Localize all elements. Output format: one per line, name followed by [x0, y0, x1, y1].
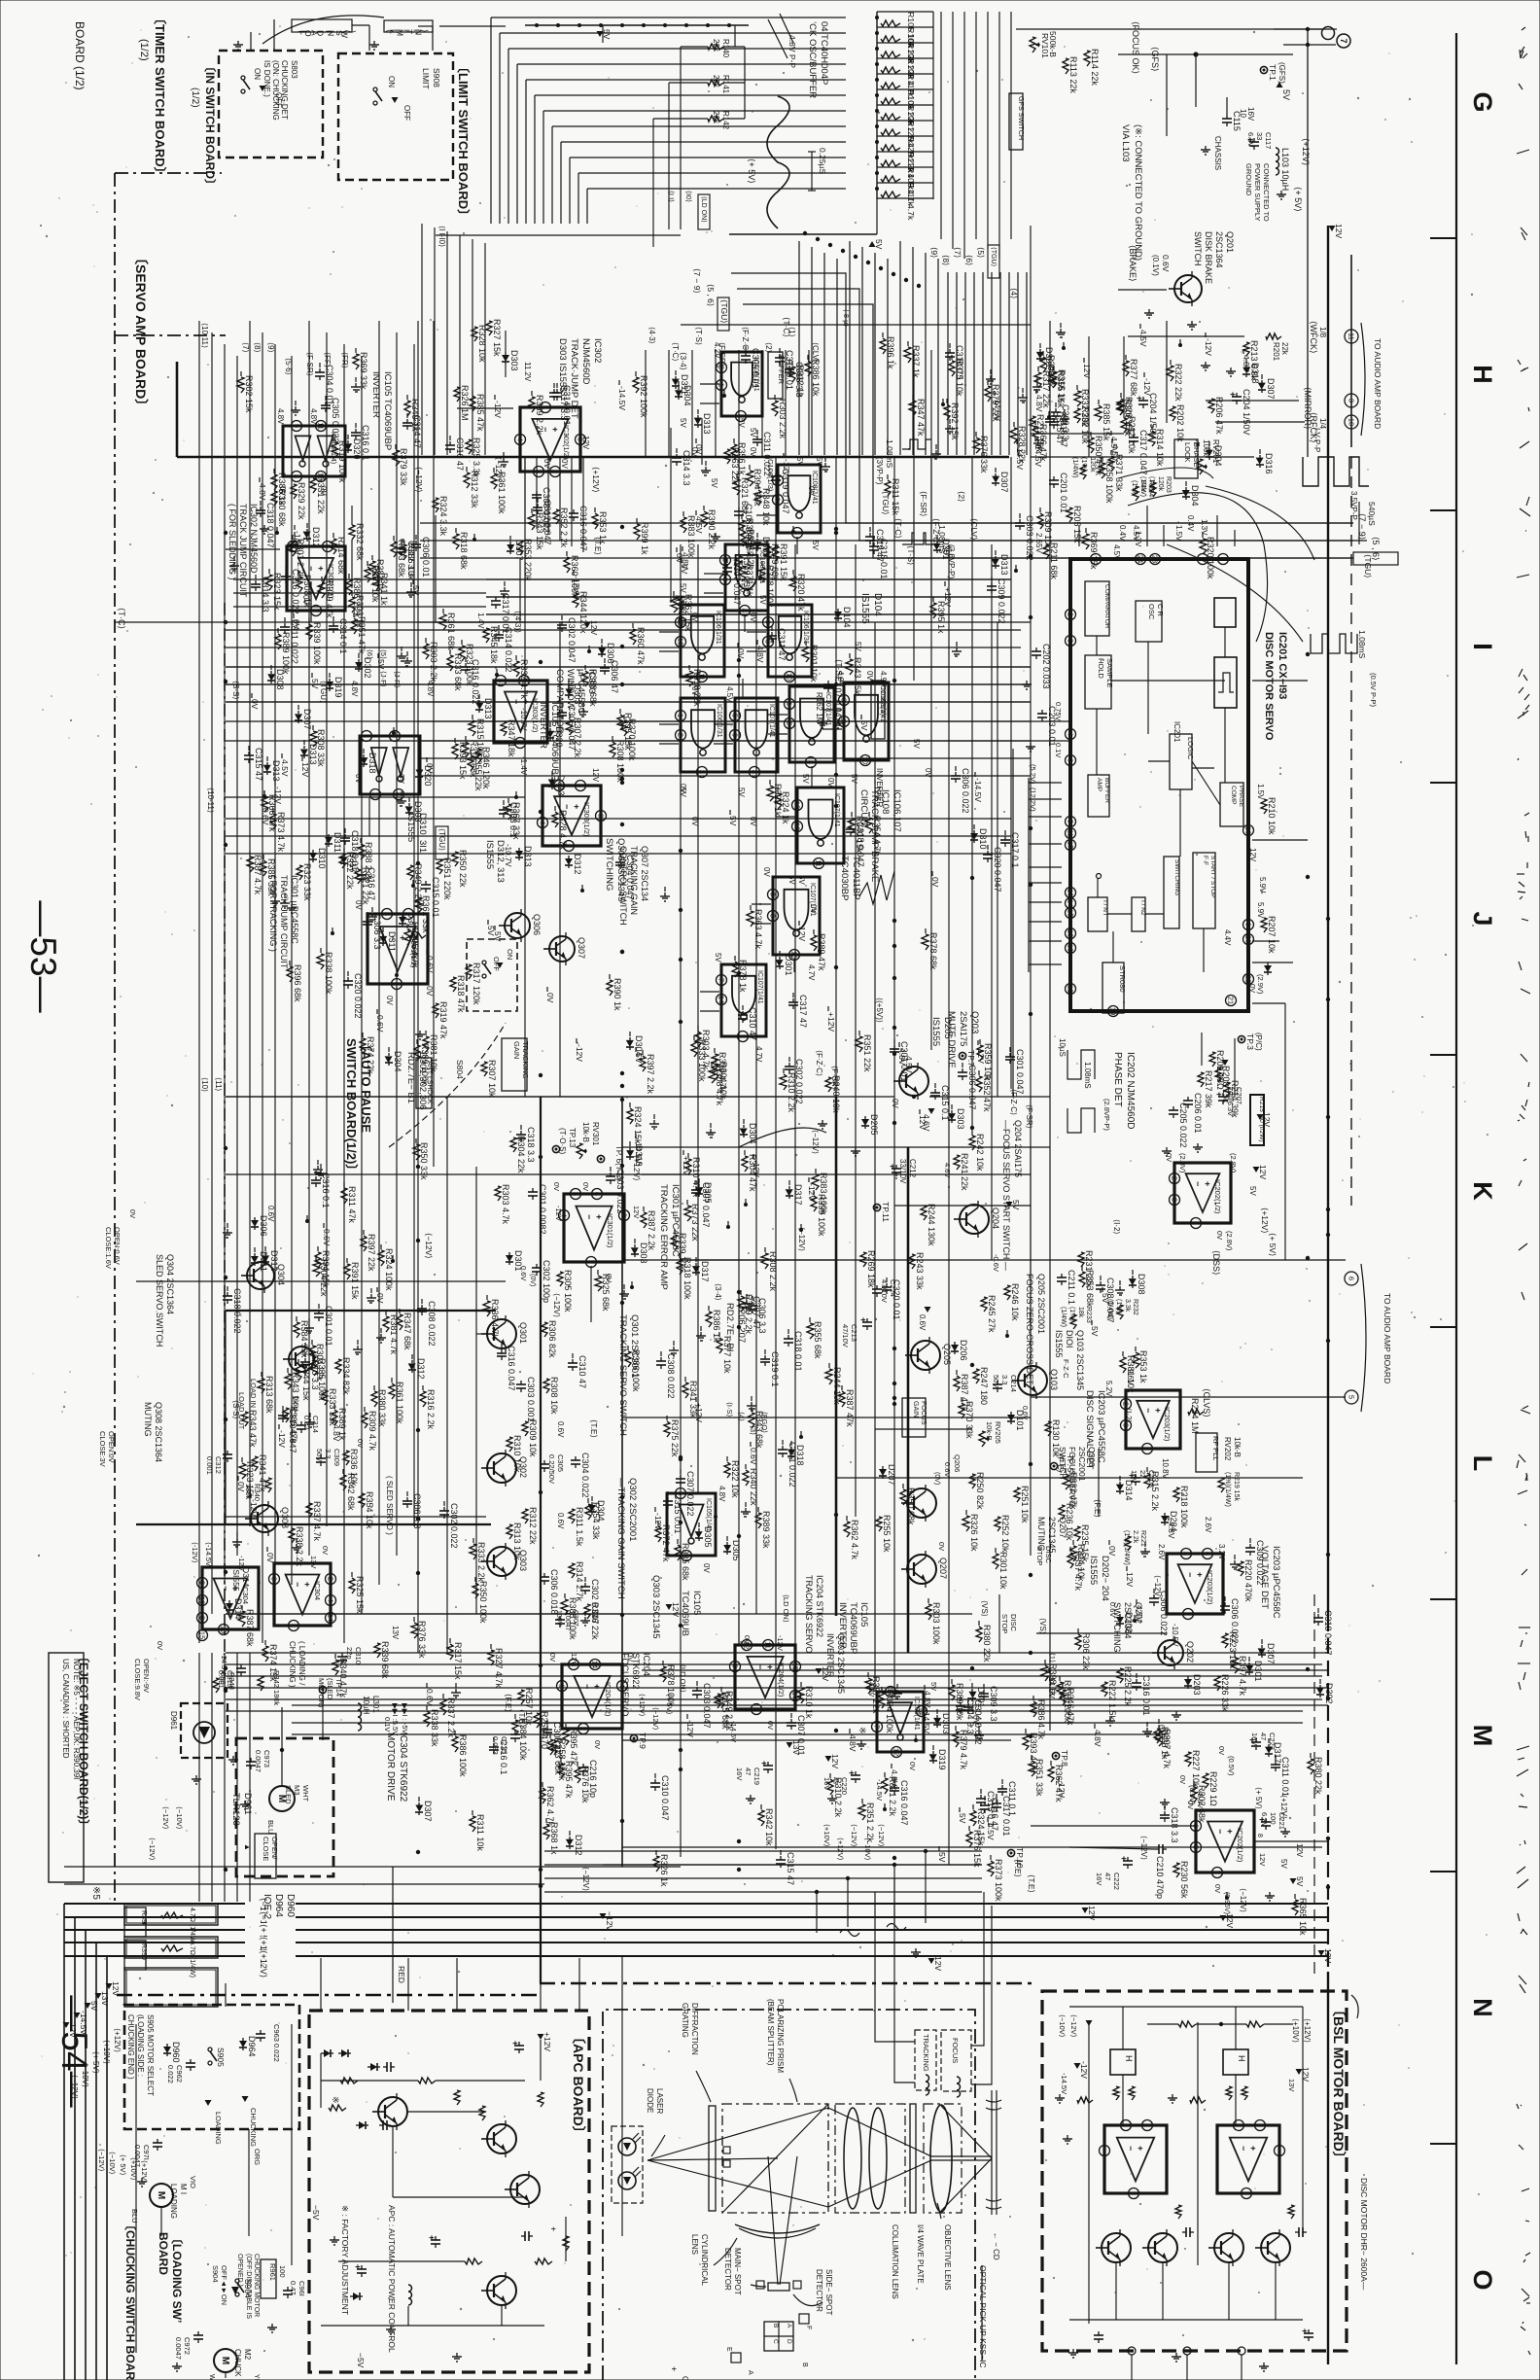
svg-text:+: + [594, 1214, 604, 1219]
svg-text:5V: 5V [797, 875, 806, 885]
svg-text:F·Z·C: F·Z·C [1062, 1359, 1070, 1379]
svg-text:C972: C972 [183, 2337, 192, 2355]
svg-text:5V: 5V [929, 1682, 938, 1691]
tgu rails [226, 818, 1011, 820]
resistor R257 [518, 1690, 524, 1704]
svg-text:12V: 12V [797, 927, 807, 941]
svg-text:R226 33k: R226 33k [1220, 1674, 1230, 1712]
svg-text:C207: C207 [1235, 1087, 1243, 1104]
capacitor C972 [197, 2331, 199, 2335]
coil loops [840, 1924, 906, 1937]
svg-text:⟨TGU⟩: ⟨TGU⟩ [1363, 554, 1373, 578]
svg-text:M3: M3 [293, 1785, 301, 1795]
quarter wave plate [910, 2104, 916, 2213]
svg-text:C303 0.022: C303 0.022 [1025, 515, 1034, 561]
svg-text:C320 0.022: C320 0.022 [353, 973, 363, 1019]
bus arrow 12V [106, 1983, 113, 1989]
svg-text:C306 0.047: C306 0.047 [967, 1065, 977, 1110]
svg-text:12: 12 [793, 801, 802, 809]
resistor R317 [466, 964, 472, 979]
svg-text:R309 4.7k: R309 4.7k [367, 1411, 377, 1452]
svg-text:4.8V: 4.8V [1167, 1522, 1176, 1539]
svg-text:IC302(1/2): IC302(1/2) [562, 425, 571, 460]
svg-text:R220 470k: R220 470k [1243, 1559, 1253, 1602]
svg-text:R343 15k: R343 15k [853, 657, 862, 695]
ground [750, 1795, 752, 1799]
svg-text:R361 100k: R361 100k [395, 1382, 404, 1424]
svg-text:D303: D303 [509, 350, 519, 371]
svg-text:C308 0.047: C308 0.047 [1105, 1277, 1115, 1323]
svg-text:⟨I I⟩: ⟨I I⟩ [667, 191, 676, 202]
ground [1230, 367, 1232, 371]
capacitor C204 [1142, 397, 1144, 401]
svg-text:⟨−12V⟩: ⟨−12V⟩ [552, 1293, 561, 1317]
capacitor C215 [514, 1731, 516, 1734]
resistor R222 [1102, 1682, 1107, 1697]
block switching [1164, 857, 1179, 928]
tp TP.8 [1052, 1752, 1059, 1759]
svg-text:0V: 0V [397, 774, 405, 784]
inverter IC105 (1/4) b [877, 1692, 924, 1752]
ladder rungs [877, 11, 933, 13]
op-amp IC301 err [564, 1194, 624, 1262]
gate IC107 c [797, 787, 844, 863]
svg-text:R323 15k: R323 15k [245, 1461, 255, 1499]
svg-text:WHT: WHT [208, 2374, 215, 2380]
svg-text:(0.5V): (0.5V) [1227, 1756, 1236, 1776]
svg-text:R304 10k: R304 10k [718, 1062, 728, 1100]
svg-text:R380 22k: R380 22k [1313, 1757, 1323, 1795]
rays through lenses [828, 2108, 992, 2156]
pot RV201 [1197, 459, 1203, 474]
curve arrow 1 [739, 1128, 826, 1147]
svg-text:+: + [1153, 1408, 1163, 1413]
resistor R312 [522, 1509, 528, 1523]
diode D206 [954, 1342, 956, 1345]
svg-text:⟨+12V⟩: ⟨+12V⟩ [140, 2160, 149, 2184]
svg-text:R387 68k: R387 68k [245, 1609, 255, 1647]
resistor R218 [1173, 1487, 1179, 1502]
capacitor C312 [227, 1451, 228, 1454]
transistor Q308 [251, 1505, 278, 1532]
svg-text:5V: 5V [1279, 1859, 1288, 1869]
svg-text:⟨+10V⟩: ⟨+10V⟩ [102, 2040, 111, 2064]
svg-text:R349 68k: R349 68k [770, 543, 780, 581]
svg-text:11: 11 [1067, 829, 1075, 837]
svg-text:R328 22k: R328 22k [1017, 426, 1027, 464]
svg-text:C316 0.1: C316 0.1 [499, 1739, 508, 1775]
bsl ground [1059, 2094, 1061, 2098]
svg-text:MUTING: MUTING [1036, 1517, 1046, 1552]
ladder drop wires [947, 272, 949, 455]
12V entry [1329, 226, 1336, 231]
svg-text:R318 22k: R318 22k [692, 669, 702, 707]
svg-text:3: 3 [198, 1616, 207, 1620]
svg-text:R340 22k: R340 22k [749, 1468, 758, 1506]
svg-text:R245 27k: R245 27k [987, 1295, 997, 1333]
svg-text:R162 1M: R162 1M [815, 692, 823, 724]
switch S803 [241, 76, 245, 80]
svg-text:D304: D304 [393, 1051, 402, 1072]
svg-text:C309 3.3: C309 3.3 [1061, 404, 1070, 440]
svg-text:R367 10k: R367 10k [370, 565, 380, 603]
svg-text:R359 2.2k: R359 2.2k [746, 529, 755, 570]
svg-text:R377 10k: R377 10k [722, 1336, 732, 1374]
svg-text:⟨7⟩: ⟨7⟩ [241, 342, 250, 353]
capacitor C313 [240, 1664, 242, 1668]
svg-text:D307: D307 [514, 540, 524, 561]
svg-text:0V: 0V [743, 1635, 752, 1644]
ic201 top pin 24 [1136, 554, 1146, 565]
svg-text:R376 33k: R376 33k [417, 1621, 427, 1659]
svg-text:R340 4.7k: R340 4.7k [338, 1658, 348, 1698]
op-amp IC202 motor drive [1196, 1810, 1254, 1872]
svg-text:R301 10k: R301 10k [809, 645, 819, 682]
svg-text:0V: 0V [581, 1182, 590, 1191]
svg-text:R326 1k: R326 1k [659, 1854, 669, 1887]
hatched resistor R391 [124, 1904, 218, 1925]
resistor R352 [553, 509, 559, 524]
svg-text:⟨11⟩: ⟨11⟩ [214, 1077, 223, 1092]
svg-text:GAIN: GAIN [912, 1401, 919, 1417]
ic201 right pin 22 [1243, 974, 1254, 985]
svg-text:R312 22k: R312 22k [528, 1507, 538, 1545]
svg-text:D307: D307 [302, 709, 312, 730]
transistor bsl Q1 [1102, 2233, 1131, 2262]
svg-text:⟨I·2⟩: ⟨I·2⟩ [1112, 1219, 1121, 1235]
svg-text:R319 100k: R319 100k [337, 440, 347, 483]
capacitor C108 [738, 507, 740, 511]
svg-text:C301 0.047: C301 0.047 [1015, 1049, 1025, 1095]
resistor R308 [543, 1379, 549, 1393]
svg-text:D314: D314 [241, 1567, 251, 1588]
svg-text:C316 0.047: C316 0.047 [507, 1346, 516, 1391]
curve pot arrow2 [1128, 493, 1268, 642]
block comparator [1085, 581, 1109, 636]
svg-text:NJM4560D: NJM4560D [580, 338, 591, 385]
svg-text:RV301: RV301 [591, 1122, 600, 1146]
ground [419, 1031, 421, 1034]
svg-text:21: 21 [1227, 997, 1236, 1004]
svg-text:I: I [1468, 643, 1497, 650]
svg-text:0V: 0V [265, 1553, 275, 1563]
svg-text:−: − [1126, 2146, 1136, 2151]
svg-text:MUTING: MUTING [143, 1402, 153, 1437]
svg-text:C210 470p: C210 470p [1155, 1856, 1165, 1899]
switch S905 [208, 2047, 212, 2051]
svg-text:0V: 0V [321, 1546, 330, 1555]
svg-text:C318 0.047: C318 0.047 [1323, 1610, 1333, 1656]
main h bus y470 [177, 456, 1009, 459]
resistor R324 [433, 498, 438, 512]
svg-text:⟨TGU⟩: ⟨TGU⟩ [990, 247, 997, 267]
resistor R130 [1045, 1421, 1051, 1436]
resistor R102 [881, 67, 900, 73]
svg-text:C214: C214 [1009, 1375, 1018, 1392]
svg-text:Q308 2SC1364: Q308 2SC1364 [154, 1402, 163, 1462]
svg-text:6: 6 [1067, 758, 1075, 762]
switch S908 limit [373, 87, 377, 91]
svg-text:-12V: -12V [572, 576, 581, 593]
svg-text:R387 4.7k: R387 4.7k [253, 855, 262, 895]
svg-text:13V: 13V [1287, 2079, 1296, 2091]
svg-text:⟨−10V⟩: ⟨−10V⟩ [175, 1806, 184, 1830]
svg-text:D318: D318 [795, 1445, 805, 1466]
svg-text:OPENED.): OPENED.) [236, 2254, 243, 2287]
svg-text:D319: D319 [333, 677, 343, 698]
svg-text:R351 22k: R351 22k [862, 1034, 872, 1072]
ic201 bottom pin 21 [1226, 996, 1237, 1006]
resistor R349 [407, 865, 413, 880]
svg-text:120k: 120k [1157, 476, 1164, 492]
svg-text:D305: D305 [703, 1182, 713, 1204]
resistor R250 [969, 1474, 975, 1488]
svg-text:D205: D205 [869, 1114, 879, 1136]
resistor R354 [359, 1493, 365, 1508]
svg-text:16: 16 [1067, 889, 1075, 896]
svg-text:⟨+ 5V⟩: ⟨+ 5V⟩ [747, 158, 756, 184]
svg-text:-14.5V: -14.5V [973, 778, 983, 802]
tp TP.10 [1007, 1849, 1014, 1856]
svg-text:C204 1/50V: C204 1/50V [1242, 389, 1251, 436]
svg-text:0.4V: 0.4V [1118, 525, 1127, 542]
svg-text:2SAI175: 2SAI175 [958, 1011, 968, 1046]
svg-text:⟨4⟩: ⟨4⟩ [737, 1412, 746, 1421]
svg-text:R325 68k: R325 68k [601, 1274, 611, 1312]
svg-text:20: 20 [1244, 935, 1253, 943]
svg-text:PHASE: PHASE [1238, 786, 1244, 808]
to-audio pin 7 [1337, 34, 1350, 48]
svg-text:TP.13: TP.13 [568, 1128, 577, 1148]
svg-text:CHUCKING: CHUCKING [249, 2108, 258, 2147]
svg-text:5: 5 [497, 679, 506, 682]
svg-text:12V: 12V [671, 1602, 681, 1617]
label -12V arrow [600, 1913, 607, 1919]
svg-text:VIA L103: VIA L103 [1120, 124, 1131, 162]
svg-text:C304 0.047: C304 0.047 [625, 855, 635, 900]
resistor R109 [881, 176, 900, 182]
resistor R258 [551, 1740, 557, 1755]
svg-text:⟨WFCK⟩: ⟨WFCK⟩ [1309, 321, 1318, 354]
svg-text:D960: D960 [171, 2042, 181, 2063]
resistor R350 [452, 852, 458, 866]
svg-text:⟨−12V⟩: ⟨−12V⟩ [70, 2075, 79, 2099]
svg-text:TRACK JUMP CIRCUIT: TRACK JUMP CIRCUIT [279, 875, 289, 969]
svg-text:D301: D301 [784, 955, 793, 976]
hatched resistor R390 [124, 1937, 218, 1958]
svg-text:R311 15k: R311 15k [891, 478, 900, 515]
op-amp IC304 b [274, 1563, 331, 1626]
svg-text:APC : AUTOMATIC POWER CONTRO: APC : AUTOMATIC POWER CONTROL [387, 2205, 397, 2353]
svg-text:+12V: +12V [943, 587, 953, 607]
svg-text:C318 0.047: C318 0.047 [856, 822, 865, 867]
tp TP.7 [959, 1052, 965, 1059]
svg-text:R251 10k: R251 10k [1020, 1486, 1030, 1523]
coil feed wires [875, 1892, 915, 2042]
curve pot arrow [1118, 468, 1213, 478]
connector T-C line [681, 324, 1031, 326]
resistor R226 [1214, 1676, 1220, 1691]
svg-text:12V: 12V [300, 762, 310, 777]
svg-text:⟨+ 5V⟩: ⟨+ 5V⟩ [1254, 1787, 1263, 1809]
svg-text:IC107(1/41: IC107(1/41 [756, 970, 763, 1004]
svg-text:FOCUS: FOCUS [951, 2038, 960, 2063]
svg-text:12V: 12V [1125, 1572, 1135, 1587]
svg-text:R350 68k: R350 68k [906, 1487, 916, 1525]
svg-text:R217 39k: R217 39k [1204, 1070, 1213, 1108]
svg-text:1/8: 1/8 [1318, 327, 1327, 338]
capacitor C316 [573, 509, 575, 513]
bsl res left [1077, 2097, 1093, 2103]
photodiode box [612, 2126, 643, 2203]
svg-text:BOARD: BOARD [157, 2232, 170, 2275]
svg-text:ON: ON [387, 76, 396, 87]
svg-text:1.4V: 1.4V [476, 612, 485, 629]
svg-text:R389 100k: R389 100k [420, 1043, 430, 1086]
square wave 1 [1303, 457, 1369, 486]
svg-text:R349 2.2k: R349 2.2k [724, 1691, 734, 1732]
svg-text:2.6V: 2.6V [1204, 1517, 1212, 1533]
svg-text:12V: 12V [1323, 1948, 1333, 1963]
svg-text:C315 0.01: C315 0.01 [431, 877, 440, 918]
svg-text:SLED: SLED [284, 1785, 293, 1804]
svg-text:⟨−12V⟩: ⟨−12V⟩ [161, 1806, 170, 1830]
svg-text:C222: C222 [1112, 1872, 1121, 1890]
svg-text:R961: R961 [268, 2263, 277, 2281]
resistor R236 [1059, 1505, 1065, 1520]
svg-text:IS1555: IS1555 [484, 840, 495, 869]
component cluster texture [513, 661, 519, 677]
component cluster texture [799, 1228, 803, 1232]
svg-text:0.1V: 0.1V [1054, 743, 1063, 757]
svg-text:C963 0.022: C963 0.022 [272, 2024, 281, 2062]
svg-text:(P/C): (P/C) [1254, 1032, 1263, 1051]
svg-text:R311 10k: R311 10k [475, 1814, 485, 1851]
svg-text:R350 22k: R350 22k [458, 850, 468, 888]
svg-text:R310 2.2k: R310 2.2k [833, 1777, 843, 1818]
svg-text:BUFFER: BUFFER [777, 355, 786, 385]
component cluster texture [239, 1463, 246, 1479]
svg-text:R318 47k: R318 47k [456, 975, 466, 1013]
svg-text:0.0047: 0.0047 [174, 2337, 183, 2360]
svg-text:IC302 NJM4560D: IC302 NJM4560D [249, 504, 259, 574]
svg-text:4.8V: 4.8V [350, 681, 359, 697]
svg-text:C309 0.022: C309 0.022 [997, 578, 1006, 624]
component cluster texture [630, 1285, 634, 1289]
apc transistor Q3 [510, 2175, 540, 2204]
svg-text:OPEN:0V: OPEN:0V [107, 1431, 116, 1463]
svg-text:D312: D312 [574, 1835, 583, 1856]
board boundary dash-dot [115, 172, 222, 174]
svg-text:R350 100k: R350 100k [478, 1581, 488, 1624]
bottom pin stub [1234, 1038, 1236, 1097]
svg-text:5V: 5V [859, 720, 869, 731]
svg-text:R367 33k: R367 33k [511, 802, 521, 840]
resistor R211 [1043, 544, 1049, 559]
svg-text:S804: S804 [455, 1060, 465, 1079]
svg-text:R317 120k: R317 120k [472, 962, 481, 1005]
curve to auto pause [389, 1023, 506, 1147]
svg-text:⟨-12V⟩: ⟨-12V⟩ [191, 1542, 199, 1563]
svg-text:1: 1 [1192, 1221, 1201, 1225]
svg-text:IC202(1/2): IC202(1/2) [1236, 1828, 1244, 1863]
capacitor C204b [1236, 393, 1238, 397]
svg-text:⟨LOAD IN SW⟩: ⟨LOAD IN SW⟩ [296, 30, 357, 38]
svg-text:(0.1V): (0.1V) [1151, 255, 1160, 276]
svg-text:R339 100k: R339 100k [312, 622, 322, 665]
block logic [1170, 734, 1192, 789]
svg-text:⟨T.E⟩: ⟨T.E⟩ [1027, 1874, 1036, 1893]
svg-text:0V: 0V [626, 1653, 635, 1662]
svg-text:0V: 0V [826, 778, 835, 787]
svg-text:+: + [353, 2264, 363, 2269]
svg-text:0V: 0V [236, 1482, 246, 1492]
audio brace 2 [1361, 1264, 1366, 1412]
transistor Q302 [487, 1453, 516, 1483]
cluster R212 [1030, 416, 1035, 431]
transistor Q304 [247, 1262, 274, 1289]
svg-text:C311 0.022: C311 0.022 [762, 432, 772, 476]
svg-text:0.6V: 0.6V [322, 1229, 332, 1246]
resistor R330 [271, 491, 277, 506]
svg-text:4.4V: 4.4V [1223, 929, 1232, 946]
svg-text:D312: D312 [269, 1250, 279, 1272]
triangle marker [231, 2287, 239, 2294]
svg-text:2: 2 [551, 470, 560, 473]
cluster R202 [1074, 408, 1080, 423]
svg-text:C306 3.3: C306 3.3 [372, 914, 382, 950]
svg-text:IS1555: IS1555 [1088, 1556, 1099, 1585]
svg-text:10: 10 [786, 673, 794, 681]
svg-text:⟨5⟩: ⟨5⟩ [976, 247, 986, 258]
svg-text:IC201 CX−I93: IC201 CX−I93 [1277, 632, 1288, 699]
svg-text:⟨+ 5V⟩: ⟨+ 5V⟩ [1268, 1233, 1277, 1256]
svg-text:8: 8 [597, 814, 606, 818]
svg-text:5.9V: 5.9V [1258, 877, 1267, 893]
svg-text:50V: 50V [992, 1375, 1000, 1387]
line 11-10 [436, 234, 681, 236]
svg-text:R378 68k: R378 68k [928, 932, 938, 970]
svg-text:5V: 5V [376, 659, 386, 670]
svg-text:0V: 0V [425, 986, 435, 997]
power bus lines [64, 1903, 1328, 1905]
svg-text:⟨-14.5V⟩: ⟨-14.5V⟩ [204, 1542, 213, 1569]
svg-text:4.8V: 4.8V [755, 646, 765, 663]
block sample hold [1085, 655, 1111, 709]
svg-text:C206 0.01: C206 0.01 [1193, 1093, 1203, 1134]
extra mid rails [226, 629, 1021, 631]
capacitor C216 [582, 1764, 584, 1767]
svg-text:D308: D308 [275, 669, 285, 690]
svg-text:M: M [156, 2191, 166, 2199]
svg-text:E: E [725, 2347, 732, 2352]
svg-text:4: 4 [539, 821, 547, 824]
svg-text:10: 10 [861, 756, 870, 764]
wire [505, 331, 507, 352]
component cluster texture [909, 401, 916, 416]
svg-text:D202− 204: D202− 204 [1100, 1556, 1110, 1601]
svg-text:R314 10k: R314 10k [1155, 429, 1165, 467]
svg-text:⟨I I·I0⟩: ⟨I I·I0⟩ [437, 226, 446, 247]
mute Q203 [899, 1067, 928, 1096]
block 1/n1 [1088, 897, 1107, 931]
svg-text:K: K [1468, 1181, 1497, 1201]
left bus extension [198, 1653, 200, 1902]
svg-text:7: 7 [587, 1260, 596, 1264]
svg-text:CONNECTED TO: CONNECTED TO [1262, 163, 1271, 222]
svg-text:OFF: OFF [402, 105, 411, 121]
svg-text:US, CANADIAN : SHORTED: US, CANADIAN : SHORTED [61, 1659, 70, 1759]
